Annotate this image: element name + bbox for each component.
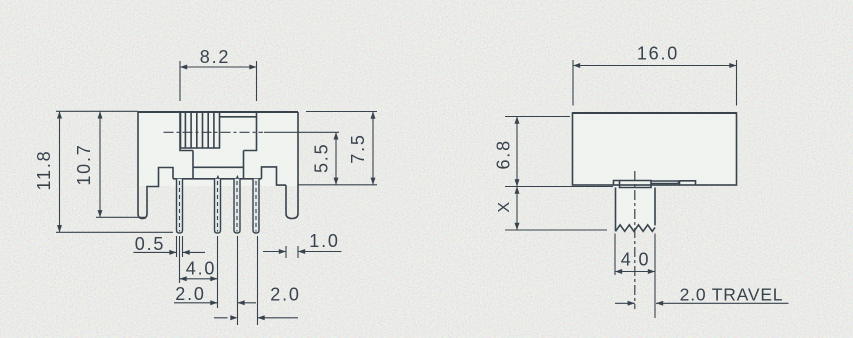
stem vertical centerline (dash-dot) bbox=[634, 171, 636, 309]
pin 2 bbox=[215, 179, 221, 233]
pin 1 bbox=[177, 179, 183, 233]
dim 16.0 extension lines bbox=[573, 60, 737, 106]
dim 2.0 extension line pin4 bbox=[257, 236, 259, 325]
svg-text:7.5: 7.5 bbox=[348, 133, 368, 163]
dim 11.8 extension lines bbox=[56, 111, 173, 232]
svg-text:X: X bbox=[496, 200, 513, 212]
svg-text:1.0: 1.0 bbox=[309, 231, 339, 251]
2.0 right arrows bbox=[230, 315, 237, 320]
dim 4.0 extension lines bbox=[180, 236, 218, 308]
body bottom edge center bbox=[173, 178, 262, 180]
svg-text:4.0: 4.0 bbox=[186, 259, 216, 279]
dim 5.5 and 7.5 bottom extension line bbox=[298, 184, 377, 186]
dim 7.5 top extension line bbox=[306, 111, 377, 113]
left view dimension texts bbox=[34, 47, 368, 305]
4.0 stem arrows bbox=[615, 269, 622, 274]
svg-text:16.0: 16.0 bbox=[637, 44, 679, 64]
svg-text:8.2: 8.2 bbox=[200, 47, 230, 67]
svg-text:5.5: 5.5 bbox=[312, 143, 332, 173]
dim 5.5 line bbox=[335, 132, 337, 185]
dim 2.0 left leader lines bbox=[174, 302, 256, 304]
svg-text:2.0: 2.0 bbox=[175, 284, 205, 304]
pin 4 bbox=[253, 179, 259, 233]
interior light fill left body bbox=[138, 112, 298, 186]
travel arrows bbox=[628, 301, 635, 306]
dim 2.0 extension line pin3 bbox=[237, 236, 239, 325]
arrowheads left view bbox=[57, 65, 376, 321]
knob recess left wall bbox=[180, 112, 193, 151]
body right edge and right mounting leg bbox=[286, 112, 298, 219]
arrowheads right view bbox=[515, 63, 737, 306]
body top edge bbox=[138, 111, 298, 113]
svg-text:2.0 TRAVEL: 2.0 TRAVEL bbox=[680, 285, 784, 305]
2.0 left arrows bbox=[210, 300, 217, 305]
dim X bottom extension line bbox=[505, 229, 607, 231]
body rectangle bbox=[573, 113, 737, 185]
dim 0.5 extension lines under pin1 bbox=[177, 236, 183, 257]
right view dimension texts bbox=[494, 44, 784, 305]
recess opening ledge line bbox=[220, 116, 257, 118]
dim 1.0 leader lines bbox=[263, 251, 342, 253]
dim 4.0 line bbox=[180, 278, 218, 280]
6.8 arrows bbox=[515, 117, 520, 124]
svg-text:0.5: 0.5 bbox=[135, 234, 165, 254]
center column bottom line bbox=[193, 166, 244, 168]
1.0 arrows bbox=[279, 249, 286, 254]
dim 6.8 / X middle extension line bbox=[505, 186, 613, 188]
0.5 arrows bbox=[169, 250, 176, 255]
body top edge emphasis bbox=[573, 112, 737, 114]
knob recess right wall bbox=[244, 112, 257, 151]
dim 10.7 extension line bottom bbox=[96, 216, 145, 218]
dim 2.0 right leader lines bbox=[214, 317, 298, 319]
interior light fill stem bbox=[616, 185, 656, 229]
7.5 arrows bbox=[371, 112, 376, 119]
pin 3 top nub bbox=[236, 175, 239, 179]
interior light fill right body bbox=[573, 113, 737, 185]
slider knob with serration hatch bbox=[181, 112, 257, 148]
travel dimension leader lines bbox=[615, 302, 789, 304]
svg-text:2.0: 2.0 bbox=[270, 285, 300, 305]
svg-text:0: 0 bbox=[639, 250, 651, 270]
stem break zigzag bbox=[616, 225, 656, 231]
dim 7.5 line bbox=[372, 112, 374, 185]
10.7 arrows bbox=[98, 111, 103, 118]
horizontal centerline through knob (dash-dot) bbox=[164, 131, 264, 133]
svg-text:4: 4 bbox=[621, 250, 633, 270]
pin 2 top nub bbox=[216, 175, 219, 179]
svg-text:10.7: 10.7 bbox=[74, 143, 94, 185]
X arrows bbox=[515, 187, 520, 194]
stem sides bbox=[616, 188, 656, 232]
dim 11.8 line bbox=[59, 111, 61, 232]
slider plate small left tab bbox=[614, 181, 620, 186]
16.0 arrows bbox=[573, 63, 580, 68]
thin rail bbox=[651, 181, 679, 184]
svg-text:6.8: 6.8 bbox=[494, 139, 514, 169]
body left edge and left mounting leg bbox=[138, 112, 173, 219]
dim 0.5 leader and arrows bbox=[134, 251, 206, 253]
small right block bbox=[680, 181, 696, 185]
11.8 arrows bbox=[57, 111, 62, 118]
dim 6.8 and X line bbox=[516, 117, 518, 231]
right bracket tab bbox=[262, 167, 287, 185]
knob base block bbox=[620, 181, 652, 188]
5.5 arrows bbox=[334, 132, 339, 139]
dim 8.2 extension lines bbox=[180, 61, 257, 101]
8.2 arrows bbox=[180, 65, 187, 70]
dim 16.0 line bbox=[573, 65, 737, 67]
svg-text:11.8: 11.8 bbox=[34, 150, 54, 191]
dim 4.0 extension lines bbox=[615, 234, 655, 319]
4.0 arrows bbox=[180, 276, 187, 281]
dim 4.0 line bbox=[615, 271, 655, 273]
dim 6.8 top extension line bbox=[505, 116, 570, 118]
pin 3 bbox=[234, 179, 240, 233]
center column left wall bbox=[192, 151, 194, 179]
dim 1.0 extension lines under right leg bbox=[286, 246, 298, 258]
dim 8.2 line bbox=[180, 66, 257, 68]
dim 5.5 extension line top (centerline extension) bbox=[264, 131, 339, 133]
dim 10.7 line bbox=[99, 111, 101, 217]
center column right wall bbox=[243, 151, 245, 179]
